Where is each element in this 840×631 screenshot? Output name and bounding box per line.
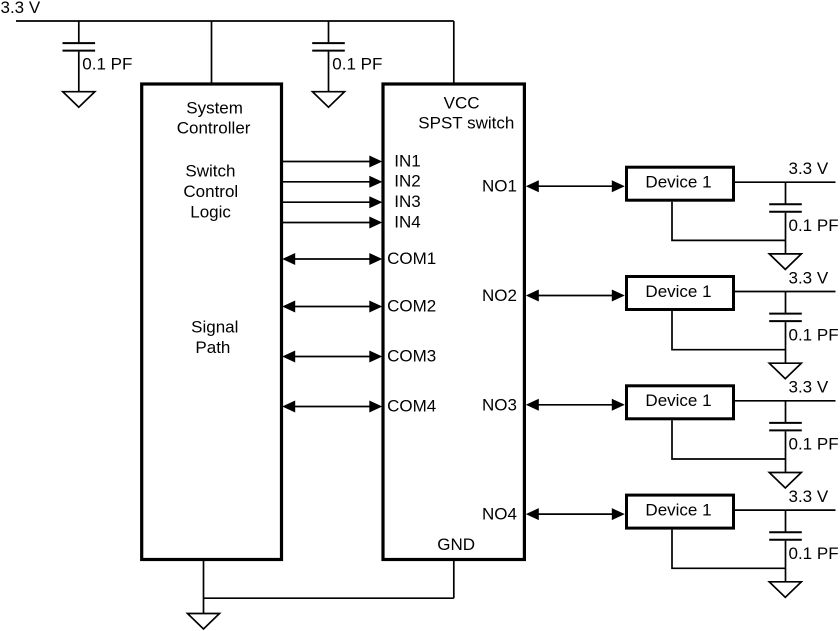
svg-text:System: System xyxy=(186,99,243,118)
wire device 4 ground return xyxy=(672,530,786,569)
svg-text:0.1 PF: 0.1 PF xyxy=(789,216,839,235)
ground GND7 xyxy=(769,582,801,598)
svg-text:0.1 PF: 0.1 PF xyxy=(789,325,839,344)
wire COM1 bidirectional signal line xyxy=(282,253,382,265)
wire device 1 ground return xyxy=(672,202,786,241)
wire 3.3V feed to system controller xyxy=(211,21,213,84)
wire device 3 supply xyxy=(735,400,836,402)
svg-text:Device 1: Device 1 xyxy=(645,173,711,192)
svg-text:3.3 V: 3.3 V xyxy=(1,0,41,17)
ground GND5 xyxy=(769,363,801,379)
svg-text:IN1: IN1 xyxy=(394,151,420,170)
svg-text:Path: Path xyxy=(195,338,230,357)
svg-text:VCC: VCC xyxy=(444,94,480,113)
wire NO3 bidirectional line to device xyxy=(526,399,625,411)
svg-text:0.1 PF: 0.1 PF xyxy=(789,544,839,563)
wire device 4 supply xyxy=(735,509,836,511)
block U1 VCC SPST switch xyxy=(383,84,524,560)
wire IN2 control line with arrow xyxy=(282,176,383,188)
wire COM2 bidirectional signal line xyxy=(282,301,382,313)
capacitor C3 xyxy=(769,182,802,254)
wire device 2 ground return xyxy=(672,311,786,350)
wire IN1 control line with arrow xyxy=(282,156,383,168)
ground GND6 xyxy=(769,473,801,489)
svg-text:Device 1: Device 1 xyxy=(645,500,711,519)
wire NO2 bidirectional line to device xyxy=(526,290,625,302)
wire 3.3V rail drop to U1 VCC xyxy=(453,21,455,84)
block Device 1 (row 4) xyxy=(627,495,734,528)
svg-text:Control: Control xyxy=(183,182,238,201)
svg-text:NO3: NO3 xyxy=(482,395,517,414)
svg-text:Signal: Signal xyxy=(191,318,238,337)
svg-text:3.3 V: 3.3 V xyxy=(789,378,829,397)
svg-text:GND: GND xyxy=(437,535,475,554)
svg-text:COM3: COM3 xyxy=(387,347,436,366)
ground GND3 xyxy=(188,614,220,630)
wire IN4 control line with arrow xyxy=(282,217,383,229)
capacitor C5 xyxy=(769,401,802,473)
svg-text:0.1 PF: 0.1 PF xyxy=(332,54,382,73)
wire device 3 ground return xyxy=(672,420,786,459)
wire device 1 supply xyxy=(735,181,836,183)
svg-text:Device 1: Device 1 xyxy=(645,282,711,301)
svg-text:SPST switch: SPST switch xyxy=(418,114,514,133)
svg-text:NO1: NO1 xyxy=(482,177,517,196)
ground GND2 xyxy=(313,92,345,108)
svg-text:COM1: COM1 xyxy=(387,249,436,268)
wire IN3 control line with arrow xyxy=(282,196,383,208)
wire 3.3V rail xyxy=(16,20,454,22)
capacitor C2 xyxy=(312,21,345,92)
wire system controller ground drop xyxy=(203,560,205,614)
svg-text:NO2: NO2 xyxy=(482,286,517,305)
svg-text:0.1 PF: 0.1 PF xyxy=(789,435,839,454)
block Device 1 (row 2) xyxy=(627,277,734,310)
svg-text:IN3: IN3 xyxy=(394,192,420,211)
wire COM4 bidirectional signal line xyxy=(282,401,382,413)
block System Controller xyxy=(142,84,282,560)
svg-text:3.3 V: 3.3 V xyxy=(789,268,829,287)
svg-text:Controller: Controller xyxy=(177,119,251,138)
wire NO4 bidirectional line to device xyxy=(526,508,625,520)
svg-text:3.3 V: 3.3 V xyxy=(789,159,829,178)
wire ground bus xyxy=(204,597,454,599)
svg-text:0.1 PF: 0.1 PF xyxy=(82,54,132,73)
wire NO1 bidirectional line to device xyxy=(526,180,625,192)
wire U1 GND drop xyxy=(453,560,455,599)
svg-text:NO4: NO4 xyxy=(482,505,517,524)
wire COM3 bidirectional signal line xyxy=(282,351,382,363)
ground GND1 xyxy=(63,92,95,108)
svg-text:IN2: IN2 xyxy=(394,172,420,191)
block Device 1 (row 1) xyxy=(627,167,734,200)
svg-text:COM2: COM2 xyxy=(387,297,436,316)
svg-text:COM4: COM4 xyxy=(387,397,436,416)
capacitor C6 xyxy=(769,510,802,582)
svg-text:Device 1: Device 1 xyxy=(645,391,711,410)
ground GND4 xyxy=(769,254,801,270)
svg-text:IN4: IN4 xyxy=(394,212,420,231)
svg-text:Logic: Logic xyxy=(190,203,231,222)
block Device 1 (row 3) xyxy=(627,386,734,419)
capacitor C4 xyxy=(769,292,802,364)
capacitor C1 xyxy=(63,21,96,92)
svg-text:Switch: Switch xyxy=(185,162,235,181)
svg-text:3.3 V: 3.3 V xyxy=(789,487,829,506)
wire device 2 supply xyxy=(735,291,836,293)
